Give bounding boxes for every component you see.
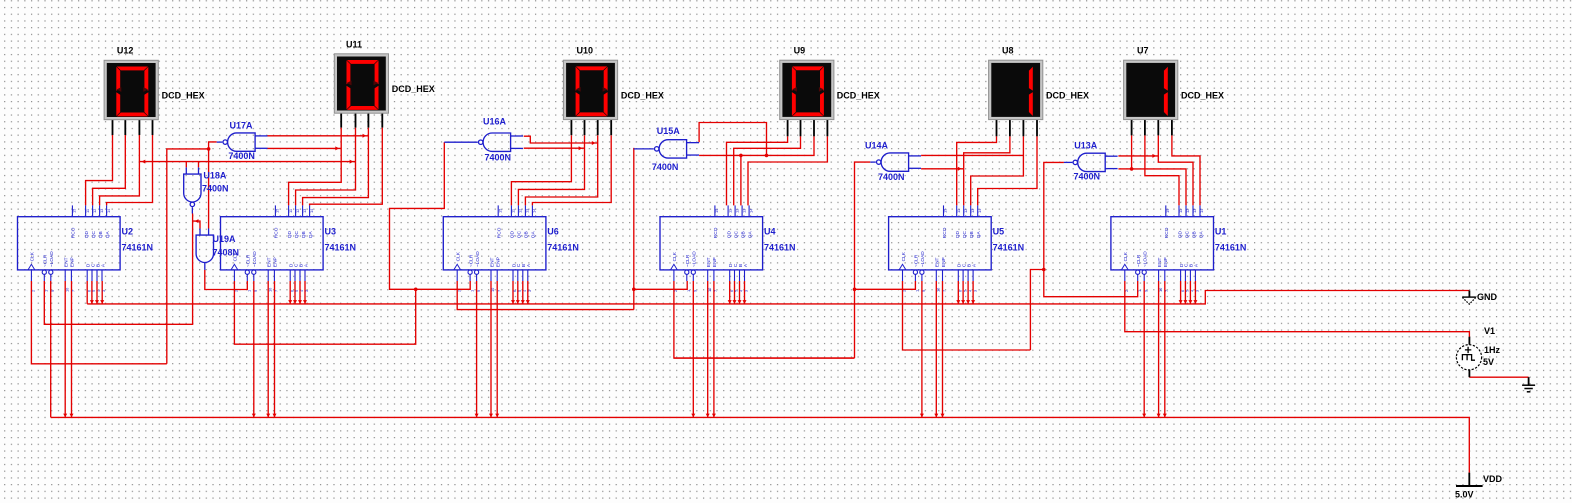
svg-text:QA: QA — [105, 230, 111, 238]
junction arrow on GND bus — [516, 300, 520, 304]
junction QB drop — [739, 154, 743, 158]
svg-text:U10: U10 — [577, 46, 594, 56]
wire U17A output down to U19A input B — [209, 142, 217, 229]
junction arrow U17A input2 tap — [335, 146, 339, 150]
svg-text:QB: QB — [1191, 231, 1197, 238]
svg-text:~LOAD: ~LOAD — [475, 251, 481, 267]
wire U5 B to GND bus — [967, 281, 969, 304]
junction on U15A output line — [632, 288, 636, 292]
junction arrow on VDD bus — [1157, 414, 1161, 418]
svg-text:U1: U1 — [1215, 227, 1227, 237]
svg-text:QA: QA — [531, 230, 537, 238]
svg-text:12: 12 — [295, 209, 300, 213]
junction arrow on GND bus — [966, 300, 970, 304]
svg-text:DCD_HEX: DCD_HEX — [1046, 90, 1089, 100]
svg-text:~CLR: ~CLR — [685, 254, 691, 267]
svg-text:7400N: 7400N — [202, 183, 229, 193]
svg-text:QA: QA — [1198, 230, 1204, 238]
wire U4 B to GND bus — [739, 281, 741, 304]
wire U3 ENP to VDD bus — [274, 281, 276, 417]
wire U3 CLK from U16A output branch — [234, 281, 415, 344]
wire U15A output down — [633, 148, 635, 310]
NAND gate U18A 7400N — [184, 167, 201, 213]
svg-text:RCO: RCO — [71, 227, 77, 238]
svg-text:~LOAD: ~LOAD — [49, 251, 55, 267]
power VDD — [1456, 473, 1483, 486]
svg-text:11: 11 — [511, 209, 516, 213]
counter U4 74161N — [660, 205, 763, 292]
svg-text:U9: U9 — [794, 46, 806, 56]
junction arrow on GND bus — [95, 300, 99, 304]
junction arrow on VDD bus — [941, 414, 945, 418]
wire U1 CLK from V1 — [1125, 281, 1470, 337]
svg-text:1: 1 — [915, 290, 920, 292]
wire U3 ENT to VDD bus — [267, 281, 269, 417]
svg-text:QD: QD — [510, 230, 516, 238]
svg-text:QD: QD — [955, 230, 961, 238]
svg-text:CLK: CLK — [30, 251, 36, 261]
svg-text:12: 12 — [1185, 209, 1190, 213]
svg-text:ENT: ENT — [64, 257, 70, 267]
svg-text:U5: U5 — [993, 227, 1005, 237]
junction arrow on VDD bus — [252, 414, 256, 418]
junction on U13A output line — [1042, 268, 1046, 272]
wire V1 negative to ground — [1469, 376, 1528, 378]
display pins (black stubs) — [112, 120, 114, 135]
7-segment display U10 (DCD_HEX) — [563, 60, 617, 119]
svg-text:RCO: RCO — [713, 227, 719, 238]
svg-text:1: 1 — [247, 290, 252, 292]
svg-text:15: 15 — [714, 209, 719, 213]
svg-text:1Hz: 1Hz — [1484, 345, 1501, 355]
svg-text:11: 11 — [1178, 209, 1183, 213]
junction arrow on VDD bus — [475, 414, 479, 418]
svg-text:QA: QA — [976, 230, 982, 238]
svg-text:U19A: U19A — [213, 234, 237, 244]
wire U10 pin1 column to U6 QD — [511, 135, 571, 205]
svg-text:QA: QA — [747, 230, 753, 238]
svg-text:3: 3 — [304, 290, 309, 292]
junction arrow U16A input1 tap — [592, 141, 596, 145]
wire U1 ENT to VDD bus — [1158, 281, 1160, 417]
svg-text:13: 13 — [970, 209, 975, 213]
wire U4 D to GND bus — [729, 281, 731, 304]
junction arrow on GND bus — [100, 300, 104, 304]
wire U10 pin4 column to U6 QA — [532, 135, 611, 205]
svg-text:QC: QC — [1184, 230, 1190, 238]
wire U2 D to GND bus — [86, 281, 88, 304]
junction arrow on GND bus — [961, 300, 965, 304]
wire U7 pin3 column to U1 QB — [1158, 135, 1193, 205]
svg-text:2: 2 — [456, 290, 461, 292]
junction arrow on GND bus — [511, 300, 515, 304]
svg-text:15: 15 — [275, 209, 280, 213]
svg-text:U14A: U14A — [865, 141, 889, 151]
svg-text:ENP: ENP — [496, 257, 502, 267]
counter U2 74161N — [18, 205, 121, 292]
junction arrow on VDD bus — [273, 414, 277, 418]
wire U9 pin3 column step with U15A input2 — [699, 136, 814, 155]
wire U16A output to U6 ~CLR — [390, 142, 471, 289]
wire U13A output to U1 ~CLR — [1044, 162, 1138, 296]
counter U5 74161N — [889, 205, 992, 292]
svg-text:13: 13 — [741, 209, 746, 213]
svg-text:QC: QC — [962, 230, 968, 238]
wire U9 pin2 column to U4 QC — [734, 136, 801, 205]
svg-text:DCD_HEX: DCD_HEX — [621, 90, 664, 100]
svg-text:GND: GND — [1477, 292, 1498, 302]
svg-text:QC: QC — [91, 230, 97, 238]
wire U6 B to GND bus — [522, 281, 524, 304]
wire drop to U4 QB — [740, 155, 742, 205]
junction arrow on U18A output — [195, 219, 199, 223]
junction arrow on GND bus — [738, 300, 742, 304]
svg-text:~CLR: ~CLR — [43, 254, 49, 267]
7-segment display U12 (DCD_HEX) — [104, 60, 158, 119]
junction arrow on GND bus — [521, 300, 525, 304]
junction arrow on GND bus — [956, 300, 960, 304]
svg-text:11: 11 — [727, 209, 732, 213]
junction arrow on GND bus — [1188, 300, 1192, 304]
wire U4 ENP to VDD bus — [713, 281, 715, 417]
svg-text:QC: QC — [733, 230, 739, 238]
wire VDD bus — [51, 417, 1470, 472]
svg-text:9: 9 — [50, 290, 55, 292]
junction arrow on VDD bus — [934, 414, 938, 418]
wire U5 A to GND bus — [972, 281, 974, 304]
svg-text:15: 15 — [497, 209, 502, 213]
svg-text:3: 3 — [527, 290, 532, 292]
wire U11 pin3 column to U3 QB — [303, 128, 369, 206]
wire U5 ~LOAD to VDD bus — [921, 281, 923, 417]
svg-text:12: 12 — [734, 209, 739, 213]
svg-text:74161N: 74161N — [1215, 243, 1247, 253]
ground GND — [1462, 291, 1476, 305]
wire U16A input1 to U10 pin3 column — [524, 136, 598, 143]
wire U18A input feed from U12 pin3 column to U11 pin2 column — [139, 161, 355, 163]
wire U7 pin4 column to U1 QA — [1172, 135, 1200, 205]
svg-text:RCO: RCO — [274, 227, 280, 238]
wire U11 pin1 column to U3 QD — [289, 128, 342, 206]
junction arrow on GND bus — [1179, 300, 1183, 304]
wire U12 pin4 column to U2 QA — [107, 135, 153, 205]
svg-text:5.0V: 5.0V — [1455, 490, 1474, 500]
svg-text:QB: QB — [98, 231, 104, 238]
7-segment display U9 (DCD_HEX) — [780, 60, 834, 119]
wire U1 A to GND bus — [1194, 281, 1196, 304]
svg-text:ENT: ENT — [489, 257, 495, 267]
svg-text:2: 2 — [31, 290, 36, 292]
wire U11 pin2 column to U3 QC — [296, 128, 356, 206]
svg-text:ENT: ENT — [267, 257, 273, 267]
svg-text:12: 12 — [518, 209, 523, 213]
junction arrow on VDD bus — [920, 414, 924, 418]
svg-text:QB: QB — [969, 231, 975, 238]
svg-text:QB: QB — [524, 231, 530, 238]
wire U6 A to GND bus — [527, 281, 529, 304]
junction arrow U13A input1 tap — [1152, 154, 1156, 158]
wire U6 ~LOAD to VDD bus — [476, 281, 478, 417]
svg-text:1: 1 — [469, 290, 474, 292]
svg-text:V1: V1 — [1484, 326, 1495, 336]
svg-text:11: 11 — [956, 209, 961, 213]
svg-text:ENP: ENP — [1163, 257, 1169, 267]
7-segment display U11 (DCD_HEX) — [334, 54, 388, 113]
wire U17A input2 to U11 pin1 column — [267, 147, 341, 149]
svg-text:74161N: 74161N — [325, 243, 357, 253]
svg-text:3: 3 — [1195, 290, 1200, 292]
svg-text:7400N: 7400N — [878, 172, 905, 182]
NAND gate U16A 7400N — [444, 133, 523, 151]
svg-text:15: 15 — [1165, 209, 1170, 213]
junction arrow U17A input1 tap — [363, 134, 367, 138]
wire U6 D to GND bus — [512, 281, 514, 304]
svg-text:~LOAD: ~LOAD — [920, 251, 926, 267]
wire U14A output down — [855, 162, 871, 358]
svg-text:CLK: CLK — [1123, 251, 1129, 261]
wire U10 pin2 column to U6 QC — [518, 135, 584, 205]
junction arrow on VDD bus — [712, 414, 716, 418]
junction U13A input2 tap — [1130, 167, 1134, 171]
wire U12 pin2 column to U2 QC — [93, 135, 126, 205]
svg-text:CLK: CLK — [672, 251, 678, 261]
wire U7 pin2 column to U1 QD — [1145, 135, 1179, 205]
svg-text:U16A: U16A — [483, 117, 507, 127]
svg-text:U7: U7 — [1137, 46, 1149, 56]
svg-text:U11: U11 — [346, 39, 362, 49]
wire U8 pin2 column to U5 QC — [964, 136, 1010, 205]
junction arrow at U11 pin2 tap — [350, 160, 354, 164]
wire U6 CLK down and right — [457, 281, 634, 310]
svg-text:74161N: 74161N — [122, 243, 154, 253]
svg-text:RCO: RCO — [942, 227, 948, 238]
counter U1 74161N — [1111, 205, 1214, 292]
svg-text:QD: QD — [726, 230, 732, 238]
wire U4 C to GND bus — [734, 281, 736, 304]
AND gate U19A 7408N — [196, 229, 213, 270]
svg-text:U15A: U15A — [657, 126, 681, 136]
wire U14A input2 to U8 pin2 net — [921, 168, 964, 170]
wire U16A input2 to U10 pin2 column — [524, 147, 585, 149]
wire U13A input2 to U7 pin1 column — [1118, 168, 1131, 170]
svg-text:7: 7 — [942, 290, 947, 292]
svg-text:ENT: ENT — [706, 257, 712, 267]
wire U9 pin4 column to U4 QA — [748, 136, 827, 205]
svg-text:QC: QC — [517, 230, 523, 238]
svg-text:7: 7 — [274, 290, 279, 292]
wire branch U17A output to U2 CLK riser — [167, 149, 209, 364]
junction arrow on GND bus — [971, 300, 975, 304]
wire U1 D to GND bus — [1180, 281, 1182, 304]
svg-text:2: 2 — [234, 290, 239, 292]
svg-text:13: 13 — [525, 209, 530, 213]
svg-text:9: 9 — [1143, 290, 1148, 292]
svg-text:QA: QA — [308, 230, 314, 238]
wire U4 ~LOAD to VDD bus — [692, 281, 694, 417]
svg-text:7400N: 7400N — [1074, 172, 1101, 182]
junction U15A input1 tap — [765, 154, 769, 158]
wire U2 A to GND bus — [101, 281, 103, 304]
svg-text:~LOAD: ~LOAD — [1143, 251, 1149, 267]
svg-text:74161N: 74161N — [993, 243, 1025, 253]
svg-text:12: 12 — [92, 209, 97, 213]
svg-text:11: 11 — [288, 209, 293, 213]
svg-text:1: 1 — [686, 290, 691, 292]
svg-text:U12: U12 — [117, 46, 134, 56]
svg-text:QB: QB — [301, 231, 307, 238]
wire U12 pin3 column to U2 QB — [100, 135, 140, 205]
wire U2 ~LOAD to VDD bus — [50, 281, 52, 417]
counter U6 74161N — [443, 205, 546, 292]
svg-text:QD: QD — [84, 230, 90, 238]
svg-text:DCD_HEX: DCD_HEX — [162, 91, 205, 101]
wire U15A input1 over to pin3 net — [699, 123, 766, 156]
svg-text:2: 2 — [902, 290, 907, 292]
junction arrow on GND bus — [1183, 300, 1187, 304]
svg-text:~CLR: ~CLR — [468, 254, 474, 267]
ground symbol at V1 negative — [1522, 377, 1535, 392]
junction U17A output branch — [207, 147, 211, 151]
junction arrow on VDD bus — [706, 414, 710, 418]
svg-text:13: 13 — [99, 209, 104, 213]
svg-text:7: 7 — [496, 290, 501, 292]
wire U14A input1 to U8 pin3 column — [921, 154, 1023, 156]
svg-text:QC: QC — [294, 230, 300, 238]
svg-text:7: 7 — [71, 290, 76, 292]
wire U2 B to GND bus — [96, 281, 98, 304]
wire U1 C to GND bus — [1184, 281, 1186, 304]
svg-text:DCD_HEX: DCD_HEX — [392, 84, 435, 94]
wire U2 ENP to VDD bus — [71, 281, 73, 417]
wire U7 pin1 column to U1 QC — [1132, 135, 1186, 205]
junction arrow on VDD bus — [691, 414, 695, 418]
junction arrow on GND bus — [728, 300, 732, 304]
wire U2 ENT to VDD bus — [64, 281, 66, 417]
wire U9 pin1 column to U4 QD — [727, 136, 788, 205]
wire U17A input1 to U11 pin3 column — [267, 135, 368, 137]
junction arrow U16A input2 tap — [579, 146, 583, 150]
svg-text:ENP: ENP — [70, 257, 76, 267]
junction arrow on GND bus — [293, 300, 297, 304]
wire U13A output branch to U5 CLK line — [1030, 270, 1043, 351]
svg-text:QB: QB — [740, 231, 746, 238]
svg-text:RCO: RCO — [1164, 227, 1170, 238]
svg-text:QD: QD — [287, 230, 293, 238]
svg-text:QD: QD — [1177, 230, 1183, 238]
svg-text:1: 1 — [44, 290, 49, 292]
junction arrow on GND bus — [743, 300, 747, 304]
junction on U16A output line — [414, 288, 418, 292]
junction arrow on GND bus — [303, 300, 307, 304]
svg-text:DCD_HEX: DCD_HEX — [1181, 90, 1224, 100]
junction on U14A output line — [853, 288, 857, 292]
svg-text:7: 7 — [1164, 290, 1169, 292]
junction arrow on GND bus — [298, 300, 302, 304]
svg-text:15: 15 — [943, 209, 948, 213]
svg-text:74161N: 74161N — [547, 243, 579, 253]
svg-text:13: 13 — [302, 209, 307, 213]
svg-text:7400N: 7400N — [485, 153, 512, 163]
svg-text:~CLR: ~CLR — [246, 254, 252, 267]
wire U4 A to GND bus — [744, 281, 746, 304]
wire U1 ~LOAD to VDD bus — [1143, 281, 1145, 417]
wire U18A input risers — [186, 162, 198, 168]
wire U3 A to GND bus — [304, 281, 306, 304]
svg-text:~LOAD: ~LOAD — [252, 251, 258, 267]
svg-text:7: 7 — [713, 290, 718, 292]
svg-text:9: 9 — [921, 290, 926, 292]
svg-text:15: 15 — [72, 209, 77, 213]
svg-text:U4: U4 — [764, 227, 776, 237]
svg-text:U13A: U13A — [1074, 140, 1098, 150]
junction arrow at U12 pin3 tap — [142, 160, 146, 164]
NAND gate U14A 7400N — [870, 153, 921, 171]
wire U2 C to GND bus — [91, 281, 93, 304]
svg-text:DCD_HEX: DCD_HEX — [837, 90, 880, 100]
wire tap U18A output to U19A input A — [193, 221, 200, 228]
wire U6 ENT to VDD bus — [490, 281, 492, 417]
wire U3 ~LOAD to VDD bus — [253, 281, 255, 417]
junction arrow on GND bus — [90, 300, 94, 304]
svg-text:12: 12 — [963, 209, 968, 213]
svg-text:U6: U6 — [547, 227, 559, 237]
wire U14A output branch to U5 ~CLR — [855, 281, 916, 289]
svg-text:U8: U8 — [1002, 46, 1014, 56]
wire U11 pin4 column to U3 QA — [310, 128, 383, 206]
junction arrow on VDD bus — [1142, 414, 1146, 418]
junction arrow on VDD bus — [70, 414, 74, 418]
svg-text:9: 9 — [693, 290, 698, 292]
svg-text:~CLR: ~CLR — [914, 254, 920, 267]
wire U5 ENT to VDD bus — [935, 281, 937, 417]
svg-text:9: 9 — [476, 290, 481, 292]
svg-text:~CLR: ~CLR — [1136, 254, 1142, 267]
wire U8 pin4 column to U5 QA — [978, 136, 1037, 205]
junction arrow U14A input2 tap — [958, 167, 962, 171]
wire U3 D to GND bus — [289, 281, 291, 304]
wire U6 C to GND bus — [517, 281, 519, 304]
wire U1 ENP to VDD bus — [1164, 281, 1166, 417]
junction arrow on GND bus — [733, 300, 737, 304]
svg-text:2: 2 — [1124, 290, 1129, 292]
NAND gate U15A 7400N — [634, 140, 699, 158]
svg-text:13: 13 — [1192, 209, 1197, 213]
svg-text:5V: 5V — [1483, 357, 1494, 367]
junction arrow on VDD bus — [489, 414, 493, 418]
svg-text:ENP: ENP — [712, 257, 718, 267]
wire U3 B to GND bus — [299, 281, 301, 304]
7-segment display U8 (DCD_HEX) — [989, 60, 1043, 119]
svg-text:U2: U2 — [122, 227, 134, 237]
svg-text:9: 9 — [253, 290, 258, 292]
NAND gate U13A 7400N — [1064, 153, 1118, 171]
svg-text:ENP: ENP — [273, 257, 279, 267]
svg-text:7400N: 7400N — [652, 162, 679, 172]
junction arrow on VDD bus — [495, 414, 499, 418]
wire U5 C to GND bus — [962, 281, 964, 304]
svg-text:7400N: 7400N — [228, 151, 255, 161]
svg-text:U18A: U18A — [203, 171, 227, 181]
svg-text:1: 1 — [1137, 290, 1142, 292]
junction arrow on VDD bus — [266, 414, 270, 418]
wire U10 pin3 column to U6 QB — [525, 135, 597, 205]
junction arrow on GND bus — [1193, 300, 1197, 304]
wire GND bus — [87, 291, 1469, 304]
svg-text:ENT: ENT — [1157, 257, 1163, 267]
svg-text:ENT: ENT — [935, 257, 941, 267]
wire U19A output to U3 ~CLR — [205, 270, 248, 290]
svg-text:CLK: CLK — [456, 251, 462, 261]
